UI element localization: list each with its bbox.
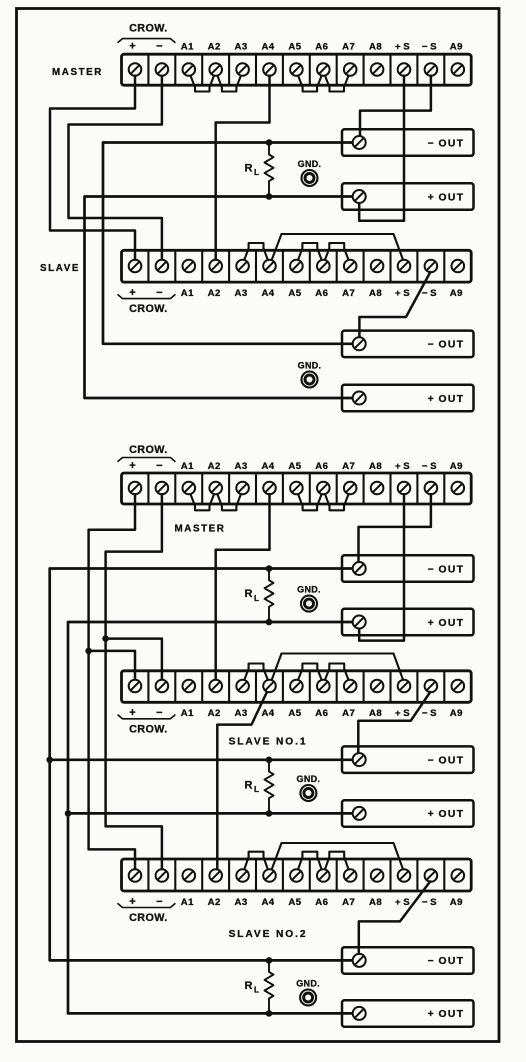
junction on + crowbar bus (bottom diagram) <box>85 648 92 655</box>
svg-text:A6: A6 <box>315 461 328 472</box>
svg-text:A4: A4 <box>261 41 274 52</box>
crowbar bracket (slave1) <box>118 715 176 719</box>
jumper strap slave2 (bottom diagram) (A4 to +S) <box>271 843 403 871</box>
resistor R_L (bottom diagram, slave2 section) (load R_L) <box>245 960 274 1013</box>
terminal strip SLAVE NO.2 (13 screw terminals) <box>122 859 472 891</box>
svg-text:A5: A5 <box>288 288 301 299</box>
svg-text:A5: A5 <box>288 41 301 52</box>
svg-text:+ OUT: + OUT <box>428 1009 465 1020</box>
junction on - crowbar bus (bottom diagram) <box>102 635 109 642</box>
svg-text:A9: A9 <box>450 708 463 719</box>
svg-text:MASTER: MASTER <box>175 523 226 534</box>
svg-text:A1: A1 <box>181 897 194 908</box>
svg-text:A4: A4 <box>261 288 274 299</box>
jumper strap slave1 (bottom diagram) (A4 to +S) <box>271 654 403 682</box>
svg-text:A2: A2 <box>208 897 221 908</box>
svg-text:− S: − S <box>422 288 437 299</box>
wire branch + crowbar to slave1 + (bottom diagram) <box>89 651 135 681</box>
svg-text:L: L <box>254 985 259 994</box>
pin labels slave strip (top diagram) <box>129 287 463 299</box>
svg-text:A9: A9 <box>450 461 463 472</box>
svg-text:L: L <box>254 168 259 177</box>
terminal strip MASTER (bottom diagram) (13 screw terminals) <box>122 473 472 504</box>
svg-text:+ S: + S <box>395 461 410 472</box>
junction R_L bottom junction (bottom master) <box>266 619 273 626</box>
jumper strap master A1-A2 (bottom) <box>190 494 214 511</box>
pin labels slave1 strip <box>129 707 463 719</box>
jumper strap slave (top diagram) (A4 to +S) <box>271 234 403 261</box>
jumper strap master A1-A2 (top) <box>190 75 214 91</box>
jumper strap slave2 A3-A4 <box>244 852 268 870</box>
wire slave2 -S to slave2 -OUT <box>359 881 431 954</box>
svg-text:A7: A7 <box>342 288 355 299</box>
svg-text:A5: A5 <box>288 461 301 472</box>
svg-text:− S: − S <box>422 41 437 52</box>
ground jack GND (top diagram, slave section) <box>298 361 322 388</box>
svg-text:A3: A3 <box>235 461 248 472</box>
svg-text:GND.: GND. <box>298 361 322 371</box>
svg-text:GND.: GND. <box>296 979 320 989</box>
svg-text:A8: A8 <box>369 708 382 719</box>
svg-text:+: + <box>129 460 135 472</box>
wire -OUT branch to slave1 (bottom diagram) <box>50 758 360 761</box>
svg-text:A5: A5 <box>288 708 301 719</box>
jumper strap slave2 A6-A7 <box>325 852 349 870</box>
wire branch - crowbar to slave1 - (bottom diagram) <box>106 639 162 681</box>
crowbar bracket (master, bottom diagram) <box>118 458 176 462</box>
svg-text:A4: A4 <box>261 708 274 719</box>
wire master + crowbar bus to slave2 + (bottom diagram) <box>89 493 135 871</box>
svg-text:A5: A5 <box>288 897 301 908</box>
svg-text:L: L <box>254 594 259 603</box>
output terminal block -OUT (bottom diagram slave2) <box>342 947 474 974</box>
svg-text:A9: A9 <box>450 288 463 299</box>
svg-text:A2: A2 <box>208 41 221 52</box>
svg-text:+: + <box>129 896 135 908</box>
pin labels master strip (top diagram) <box>129 40 463 52</box>
svg-text:+ S: + S <box>395 288 410 299</box>
jumper strap master A2-A3 (top) <box>217 75 241 91</box>
svg-text:A4: A4 <box>261 897 274 908</box>
svg-text:A7: A7 <box>342 897 355 908</box>
svg-text:R: R <box>245 163 253 175</box>
svg-text:−: − <box>156 40 162 52</box>
wire master + crowbar to slave + (top diagram) <box>50 75 135 262</box>
svg-text:GND.: GND. <box>298 159 322 169</box>
output terminal block +OUT (top diagram slave) <box>342 385 474 412</box>
svg-text:R: R <box>245 980 253 992</box>
svg-text:−: − <box>156 460 162 472</box>
svg-text:+ S: + S <box>395 41 410 52</box>
svg-text:A1: A1 <box>181 41 194 52</box>
svg-text:A2: A2 <box>208 288 221 299</box>
output terminal block -OUT (top diagram slave) <box>342 331 474 358</box>
svg-text:A6: A6 <box>315 708 328 719</box>
jumper strap slave1 A6-A7 <box>325 664 349 681</box>
svg-text:A1: A1 <box>181 708 194 719</box>
svg-text:CROW.: CROW. <box>129 303 168 315</box>
svg-text:A4: A4 <box>261 461 274 472</box>
crowbar bracket (slave, top diagram) <box>118 294 176 298</box>
svg-text:A3: A3 <box>235 708 248 719</box>
jumper strap master A6-A7 (top) <box>325 75 349 91</box>
output terminal block -OUT (bottom diagram slave1) <box>342 746 474 773</box>
ground jack GND (bottom diagram, slave1 section) <box>297 774 321 801</box>
terminal strip MASTER (top diagram) (13 screw terminals) <box>122 54 472 85</box>
svg-text:A8: A8 <box>369 897 382 908</box>
svg-text:+ S: + S <box>395 708 410 719</box>
svg-text:A9: A9 <box>450 897 463 908</box>
svg-text:A7: A7 <box>342 41 355 52</box>
wire master A4 to slave A2 (top diagram) <box>216 75 270 262</box>
junction R_L bottom junction (top diagram) <box>266 193 273 200</box>
svg-text:MASTER: MASTER <box>52 67 103 78</box>
jumper strap master A2-A3 (bottom) <box>217 494 241 511</box>
crowbar bracket (slave2) <box>118 903 176 907</box>
terminal strip SLAVE NO.1 (13 screw terminals) <box>122 671 472 703</box>
jumper strap slave1 A5-A6 <box>298 664 322 681</box>
ground jack GND (bottom diagram, slave2 section) <box>296 979 320 1006</box>
ground jack GND (bottom diagram, master section) <box>297 585 321 612</box>
svg-text:− S: − S <box>422 708 437 719</box>
svg-text:CROW.: CROW. <box>129 444 168 456</box>
svg-text:−: − <box>156 287 162 299</box>
svg-text:A3: A3 <box>235 41 248 52</box>
junction R_L bottom junction (slave1) <box>266 810 273 817</box>
svg-text:CROW.: CROW. <box>129 723 168 735</box>
svg-text:−: − <box>156 896 162 908</box>
wire master +S to +OUT (top diagram) <box>359 75 404 221</box>
svg-text:A3: A3 <box>235 897 248 908</box>
resistor R_L (bottom diagram, master section) (load R_L) <box>245 569 274 623</box>
svg-text:A8: A8 <box>369 41 382 52</box>
crowbar bracket (master, top diagram) <box>118 39 176 43</box>
junction R_L top junction (top diagram) <box>266 139 273 146</box>
svg-text:+: + <box>129 40 135 52</box>
svg-text:− S: − S <box>422 897 437 908</box>
junction on -OUT bus (bottom diagram) <box>46 757 53 764</box>
output terminal block +OUT (bottom diagram master) <box>342 609 474 636</box>
pin labels slave2 strip <box>129 896 463 908</box>
svg-text:A2: A2 <box>208 461 221 472</box>
svg-text:+: + <box>129 287 135 299</box>
jumper strap slave2 A5-A6 <box>298 852 322 870</box>
svg-text:A9: A9 <box>450 41 463 52</box>
output terminal block +OUT (top diagram master) <box>342 183 474 210</box>
wire -OUT bus (top diagram) <box>103 143 359 344</box>
svg-text:− OUT: − OUT <box>428 956 465 967</box>
svg-text:SLAVE: SLAVE <box>40 263 80 274</box>
svg-text:+: + <box>129 707 135 719</box>
wire master +S to +OUT (bottom diagram) <box>359 493 404 641</box>
wire +OUT bus (top diagram) <box>85 197 360 399</box>
jumper strap slave A6-A7 (top) <box>325 243 349 260</box>
svg-text:A8: A8 <box>369 288 382 299</box>
wire slave -S to slave -OUT (top diagram) <box>359 271 431 337</box>
output terminal block -OUT (top diagram master) <box>342 129 474 156</box>
svg-text:GND.: GND. <box>297 585 321 595</box>
svg-text:A7: A7 <box>342 461 355 472</box>
resistor R_L (bottom diagram, slave1 section) (load R_L) <box>245 760 274 814</box>
ground jack GND (top diagram, master section) <box>298 159 322 186</box>
wire master -S to -OUT (top diagram) <box>360 75 431 137</box>
junction R_L bottom junction (slave2) <box>266 1010 273 1017</box>
svg-text:− OUT: − OUT <box>428 755 465 766</box>
wire slave1 -S to slave1 -OUT <box>358 691 431 753</box>
svg-text:A6: A6 <box>315 41 328 52</box>
svg-text:A8: A8 <box>369 461 382 472</box>
svg-text:A2: A2 <box>208 708 221 719</box>
wire -OUT bus (bottom diagram) <box>50 569 360 961</box>
junction on +OUT bus (bottom diagram) <box>65 810 72 817</box>
svg-text:SLAVE NO.2: SLAVE NO.2 <box>229 929 308 940</box>
svg-text:R: R <box>245 780 253 792</box>
svg-text:+ OUT: + OUT <box>428 618 465 629</box>
resistor R_L (top diagram) (load R_L) <box>245 143 274 197</box>
junction R_L top junction (bottom master) <box>266 565 273 572</box>
svg-text:+ OUT: + OUT <box>428 809 465 820</box>
output terminal block -OUT (bottom diagram master) <box>342 555 474 582</box>
svg-text:CROW.: CROW. <box>129 23 168 35</box>
wire master - crowbar to slave - (top diagram) <box>69 75 162 262</box>
svg-text:− S: − S <box>422 461 437 472</box>
output terminal block +OUT (bottom diagram slave2) <box>342 1000 474 1026</box>
output terminal block +OUT (bottom diagram slave1) <box>342 800 474 827</box>
jumper strap slave1 A3-A4 <box>244 664 268 681</box>
junction R_L top junction (slave1) <box>266 757 273 764</box>
terminal strip SLAVE (top diagram) (13 screw terminals) <box>122 250 472 282</box>
pin labels master strip (bottom diagram) <box>129 460 463 472</box>
svg-text:A6: A6 <box>315 288 328 299</box>
svg-text:R: R <box>245 588 253 600</box>
jumper strap master A5-A6 (top) <box>298 75 322 91</box>
wire master - crowbar bus to slave2 - (bottom diagram) <box>106 493 162 871</box>
svg-text:A6: A6 <box>315 897 328 908</box>
wire +OUT branch to slave1 (bottom diagram) <box>68 812 359 815</box>
svg-text:A1: A1 <box>181 461 194 472</box>
svg-text:+ S: + S <box>395 897 410 908</box>
jumper strap slave A5-A6 (top) <box>298 243 322 260</box>
svg-text:− OUT: − OUT <box>428 138 465 149</box>
svg-text:A1: A1 <box>181 288 194 299</box>
junction R_L top junction (slave2) <box>266 957 273 964</box>
svg-text:A7: A7 <box>342 708 355 719</box>
svg-text:L: L <box>254 785 259 794</box>
svg-text:+ OUT: + OUT <box>428 192 465 203</box>
jumper strap master A5-A6 (bottom) <box>298 494 322 511</box>
wire slave1 A4 to slave2 A2 (bottom diagram) <box>217 691 267 870</box>
svg-text:GND.: GND. <box>297 774 321 784</box>
jumper strap master A6-A7 (bottom) <box>325 494 349 511</box>
svg-text:CROW.: CROW. <box>129 912 168 924</box>
wire master A4 to slave1 A2 (bottom diagram) <box>216 493 270 681</box>
svg-text:−: − <box>156 707 162 719</box>
svg-text:+ OUT: + OUT <box>428 394 465 405</box>
wire +OUT bus (bottom diagram) <box>68 622 359 1013</box>
jumper strap slave A3-A4 (top) <box>244 243 268 260</box>
wire master -S to -OUT (bottom diagram) <box>359 493 431 562</box>
svg-text:− OUT: − OUT <box>428 564 465 575</box>
svg-text:A3: A3 <box>235 288 248 299</box>
svg-text:SLAVE NO.1: SLAVE NO.1 <box>229 737 308 748</box>
svg-text:− OUT: − OUT <box>428 340 465 351</box>
